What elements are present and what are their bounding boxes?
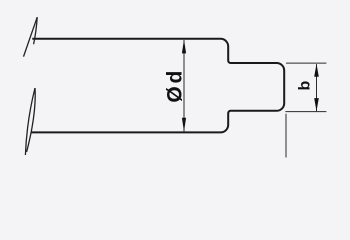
break line top-left: short bowed stroke bbox=[34, 17, 38, 44]
extension line bottom (for b) bbox=[285, 111, 326, 113]
arrowhead b bottom bbox=[314, 98, 319, 111]
dimension line b (vertical) bbox=[316, 64, 318, 111]
dimension line Od (vertical) bbox=[183, 40, 185, 131]
break line bottom-left: left stroke bbox=[25, 88, 35, 155]
arrowhead Od bottom bbox=[182, 118, 186, 132]
extension line top (for b) bbox=[286, 62, 326, 64]
break line bottom-left: right bowed stroke bbox=[27, 88, 36, 152]
svg-text:Ød: Ød bbox=[163, 68, 186, 103]
break line top-left: long stroke bbox=[24, 17, 38, 56]
arrowhead Od top bbox=[182, 40, 186, 54]
extension line vertical (below stub) bbox=[285, 114, 287, 158]
shaft outline (stepped pin profile) bbox=[32, 39, 285, 133]
svg-text:b: b bbox=[297, 80, 314, 90]
arrowhead b top bbox=[314, 64, 319, 77]
